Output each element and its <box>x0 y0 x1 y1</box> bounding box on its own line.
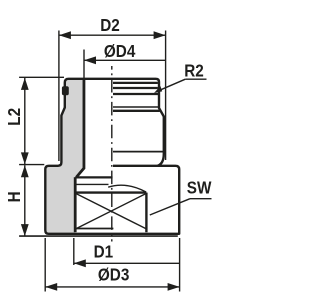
svg-text:R2: R2 <box>184 60 204 80</box>
svg-text:SW: SW <box>187 177 212 197</box>
svg-text:ØD3: ØD3 <box>98 264 129 284</box>
svg-text:L2: L2 <box>4 108 24 126</box>
svg-text:D2: D2 <box>100 15 120 35</box>
svg-text:H: H <box>4 191 24 202</box>
svg-text:ØD4: ØD4 <box>104 41 136 61</box>
svg-text:D1: D1 <box>94 241 114 261</box>
